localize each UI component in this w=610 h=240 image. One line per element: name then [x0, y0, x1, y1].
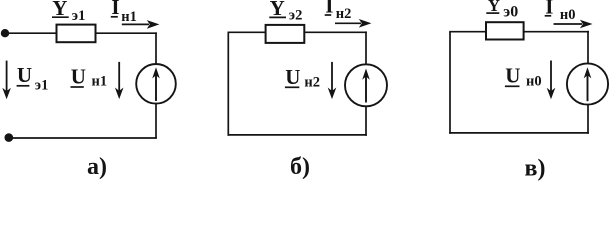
svg-text:I: I: [111, 0, 119, 19]
label I underline (Iн2): [325, 14, 332, 16]
wire left vertical (circuit v): [449, 32, 451, 134]
admittance box Yэ0: [486, 22, 524, 39]
wire bottom (circuit a): [9, 137, 157, 139]
wire right vertical lower (circuit v): [587, 104, 589, 134]
svg-text:н2: н2: [336, 6, 352, 22]
wire top-left to box (circuit v): [449, 31, 486, 33]
svg-text:Y: Y: [488, 0, 500, 15]
voltage arrow Uн2 (down): [328, 62, 337, 99]
wire bottom (circuit b): [228, 134, 367, 136]
svg-text:н0: н0: [526, 74, 542, 90]
wire top-left to box (circuit a): [5, 32, 58, 34]
wire top-left to box (circuit b): [228, 31, 267, 33]
current arrow Iн1: [122, 20, 160, 29]
wire box to corner (circuit b): [304, 31, 367, 33]
svg-text:э0: э0: [503, 4, 518, 21]
label U underline (Uн2): [285, 86, 299, 88]
svg-text:U: U: [505, 64, 520, 88]
svg-text:I: I: [325, 0, 333, 17]
current source J0 arrow: [584, 67, 592, 101]
current source J2 arrow: [362, 69, 370, 103]
svg-text:э1: э1: [72, 8, 86, 24]
svg-text:U: U: [285, 65, 300, 89]
current source J1 arrow: [152, 67, 160, 101]
voltage arrow Uэ1 (down): [2, 61, 11, 100]
wire right vertical upper (circuit v): [587, 31, 589, 64]
wire bottom (circuit v): [449, 132, 589, 134]
svg-text:э1: э1: [35, 77, 49, 93]
label Y underline (Yэ2): [269, 16, 286, 18]
wire box to corner (circuit a): [96, 32, 157, 34]
svg-text:Y: Y: [52, 0, 67, 20]
wire right vertical upper (circuit b): [365, 31, 367, 65]
label Y underline (Yэ0): [486, 12, 499, 14]
label U underline (Uэ1): [17, 85, 30, 87]
current arrow Iн0: [554, 20, 593, 29]
wire right vertical lower (circuit a): [155, 104, 157, 138]
svg-text:н1: н1: [92, 73, 108, 89]
label I underline (Iн0): [545, 15, 552, 17]
wire left vertical (circuit b): [227, 32, 229, 136]
svg-text:н2: н2: [304, 75, 320, 91]
label I underline (Iн1): [111, 16, 118, 18]
node terminal dot top-left (circuit a): [1, 29, 9, 37]
label Y underline (Yэ1): [52, 16, 69, 18]
svg-text:в): в): [525, 155, 546, 181]
wire right vertical lower (circuit b): [365, 106, 367, 136]
current source J2 circle: [345, 64, 387, 106]
svg-text:I: I: [545, 0, 553, 18]
svg-text:U: U: [17, 63, 32, 87]
svg-text:Y: Y: [270, 0, 285, 20]
admittance box Yэ1: [57, 25, 96, 43]
current source J1 circle: [136, 64, 176, 104]
label U underline (Uн0): [505, 85, 520, 87]
wire box to corner (circuit v): [524, 31, 589, 33]
svg-text:н1: н1: [121, 9, 137, 25]
svg-text:U: U: [71, 65, 86, 89]
voltage arrow Uн0 (down): [547, 61, 556, 100]
svg-text:э2: э2: [289, 7, 303, 23]
node terminal dot bottom-left (circuit a): [5, 133, 14, 142]
svg-text:б): б): [290, 154, 310, 180]
label U underline (Uн1): [71, 86, 84, 88]
svg-text:н0: н0: [560, 7, 576, 23]
current source J0 circle: [567, 63, 608, 104]
wire right vertical upper (circuit a): [155, 32, 157, 64]
admittance box Yэ2: [266, 25, 305, 43]
current arrow Iн2: [335, 19, 371, 28]
voltage arrow Uн1 (down): [115, 62, 124, 99]
svg-text:а): а): [87, 154, 107, 180]
